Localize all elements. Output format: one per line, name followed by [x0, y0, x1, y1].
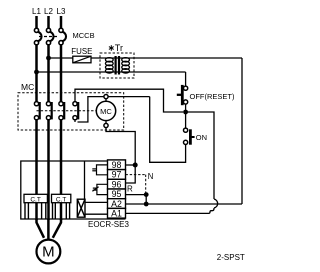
wire L1 MCCB to MC contact: [35, 45, 38, 102]
svg-text:2-SPST: 2-SPST: [217, 253, 245, 262]
terminal A1: [108, 208, 126, 218]
svg-text:MCCB: MCCB: [73, 31, 95, 40]
svg-text:98: 98: [112, 160, 122, 170]
coil MC bottom terminal: [104, 123, 108, 127]
wire drop to OFF button: [185, 72, 187, 86]
transformer Tr secondary coil: [122, 58, 130, 74]
svg-text:L3: L3: [57, 7, 66, 16]
fuse F1: [73, 56, 91, 63]
node junction 95-N: [144, 192, 149, 197]
contactor MC linkage dashed: [37, 110, 97, 112]
wire right rail down: [241, 58, 243, 204]
svg-text:A1: A1: [111, 209, 122, 219]
wire L3 MCCB to MC contact: [60, 45, 63, 102]
wire 98 to junction: [126, 164, 136, 166]
svg-text:R: R: [127, 185, 133, 194]
wire L2 to fuse: [49, 57, 74, 59]
wire A1 to terminal: [126, 212, 209, 214]
svg-text:C.T: C.T: [30, 197, 41, 204]
wire L3 MC to CT: [60, 120, 63, 220]
svg-text:C.T: C.T: [56, 197, 67, 204]
wire A2 to right rail: [126, 203, 243, 205]
wire N drop dashed: [145, 175, 147, 193]
wire coil-top bus: [78, 97, 150, 122]
pushbutton ON NO: [184, 128, 195, 145]
coil MC top terminal: [104, 95, 108, 99]
wire aux bottom stub: [74, 119, 76, 122]
svg-text:ON: ON: [196, 133, 207, 142]
terminal 96: [108, 179, 126, 189]
terminal 98: [108, 160, 126, 170]
EOCR current element X: [77, 199, 85, 217]
motor M: [37, 240, 61, 264]
node junction A2: [144, 202, 149, 207]
EOCR inner left edge: [84, 161, 86, 199]
pushbutton OFF(RESET) NC: [177, 85, 188, 105]
svg-text:MC: MC: [100, 107, 112, 116]
transformer Tr asterisk mark: [109, 45, 114, 51]
circuit breaker MCCB pole 2: [46, 28, 53, 45]
wire X to A2: [85, 201, 108, 203]
contactor MC main contact pole2: [46, 102, 51, 120]
contactor MC main contact pole1: [34, 102, 39, 120]
transformer Tr primary coil: [105, 58, 113, 74]
coil MC: [96, 101, 115, 120]
EOCR panel box: [21, 161, 126, 219]
svg-text:97: 97: [112, 170, 122, 180]
wire A1 jog: [208, 211, 211, 214]
wire L2 drop to MCCB: [47, 16, 50, 28]
transformer Tr dashed enclosure: [100, 53, 134, 78]
wire A1 rail bottom corner: [211, 208, 214, 211]
wire L2 MC to CT: [47, 120, 50, 220]
wire L3 drop to MCCB: [60, 16, 63, 28]
svg-text:OFF(RESET): OFF(RESET): [190, 92, 235, 101]
wire ON bottom to aux branch: [150, 97, 186, 163]
wire hop A1 rail over A2 wire: [214, 199, 218, 208]
MCCB linkage dashed: [39, 36, 59, 38]
svg-text:EOCR-SE3: EOCR-SE3: [88, 220, 129, 229]
coil MC terminal stubs: [105, 98, 107, 101]
wire fuse through transformer to right rail: [91, 57, 243, 59]
terminal 97: [108, 170, 126, 180]
wire 95 to node: [126, 194, 149, 196]
svg-text:Tr: Tr: [115, 43, 123, 53]
relay contact 95-96 NC: [92, 184, 107, 194]
wire node to node: [145, 195, 147, 204]
svg-text:FUSE: FUSE: [71, 47, 92, 56]
wire X to A1: [85, 213, 108, 215]
svg-text:MC: MC: [21, 82, 34, 92]
wire L1 to motor: [37, 219, 45, 238]
wire junction to A1 rail: [186, 112, 214, 199]
wire junction to 96: [126, 162, 136, 183]
wire L2 MCCB to MC contact: [47, 45, 50, 102]
CT 2: [52, 194, 71, 218]
svg-text:M: M: [42, 243, 55, 260]
wire L1 drop to MCCB: [35, 16, 38, 28]
wire 97 to N dashed: [126, 174, 146, 176]
relay contact 97-98 NO: [92, 165, 107, 175]
contactor MC dashed enclosure: [18, 93, 124, 130]
wire L2 to motor: [47, 219, 50, 240]
node junction OFF-ON: [183, 110, 188, 115]
svg-text:N: N: [148, 172, 154, 181]
svg-text:L2: L2: [44, 7, 53, 16]
wire L1 control tap through transformer to OFF button: [37, 71, 186, 73]
circuit breaker MCCB pole 1: [34, 28, 41, 45]
wire MC coil bottom to 98 rail: [106, 128, 135, 162]
svg-text:A2: A2: [111, 199, 122, 209]
terminal A2: [108, 199, 126, 209]
wire L3 to motor: [53, 219, 61, 238]
wire junction to ON button: [185, 112, 187, 128]
svg-text:96: 96: [112, 179, 122, 189]
node junction 98-coil: [133, 163, 138, 168]
contactor MC main contact pole3: [59, 102, 64, 120]
terminal 95: [108, 189, 126, 199]
svg-text:95: 95: [112, 189, 122, 199]
wire aux top to self-hold rail: [75, 89, 183, 112]
circuit breaker MCCB pole 3: [59, 28, 66, 45]
CT 1: [24, 194, 47, 218]
wire L1 MC to CT: [35, 120, 38, 220]
wire OFF to junction: [185, 104, 187, 112]
node junction L2-fuse: [46, 56, 51, 61]
transformer Tr core: [114, 56, 116, 75]
node junction L1-control: [34, 70, 39, 75]
contactor MC aux contact: [73, 102, 78, 120]
svg-text:L1: L1: [32, 7, 41, 16]
